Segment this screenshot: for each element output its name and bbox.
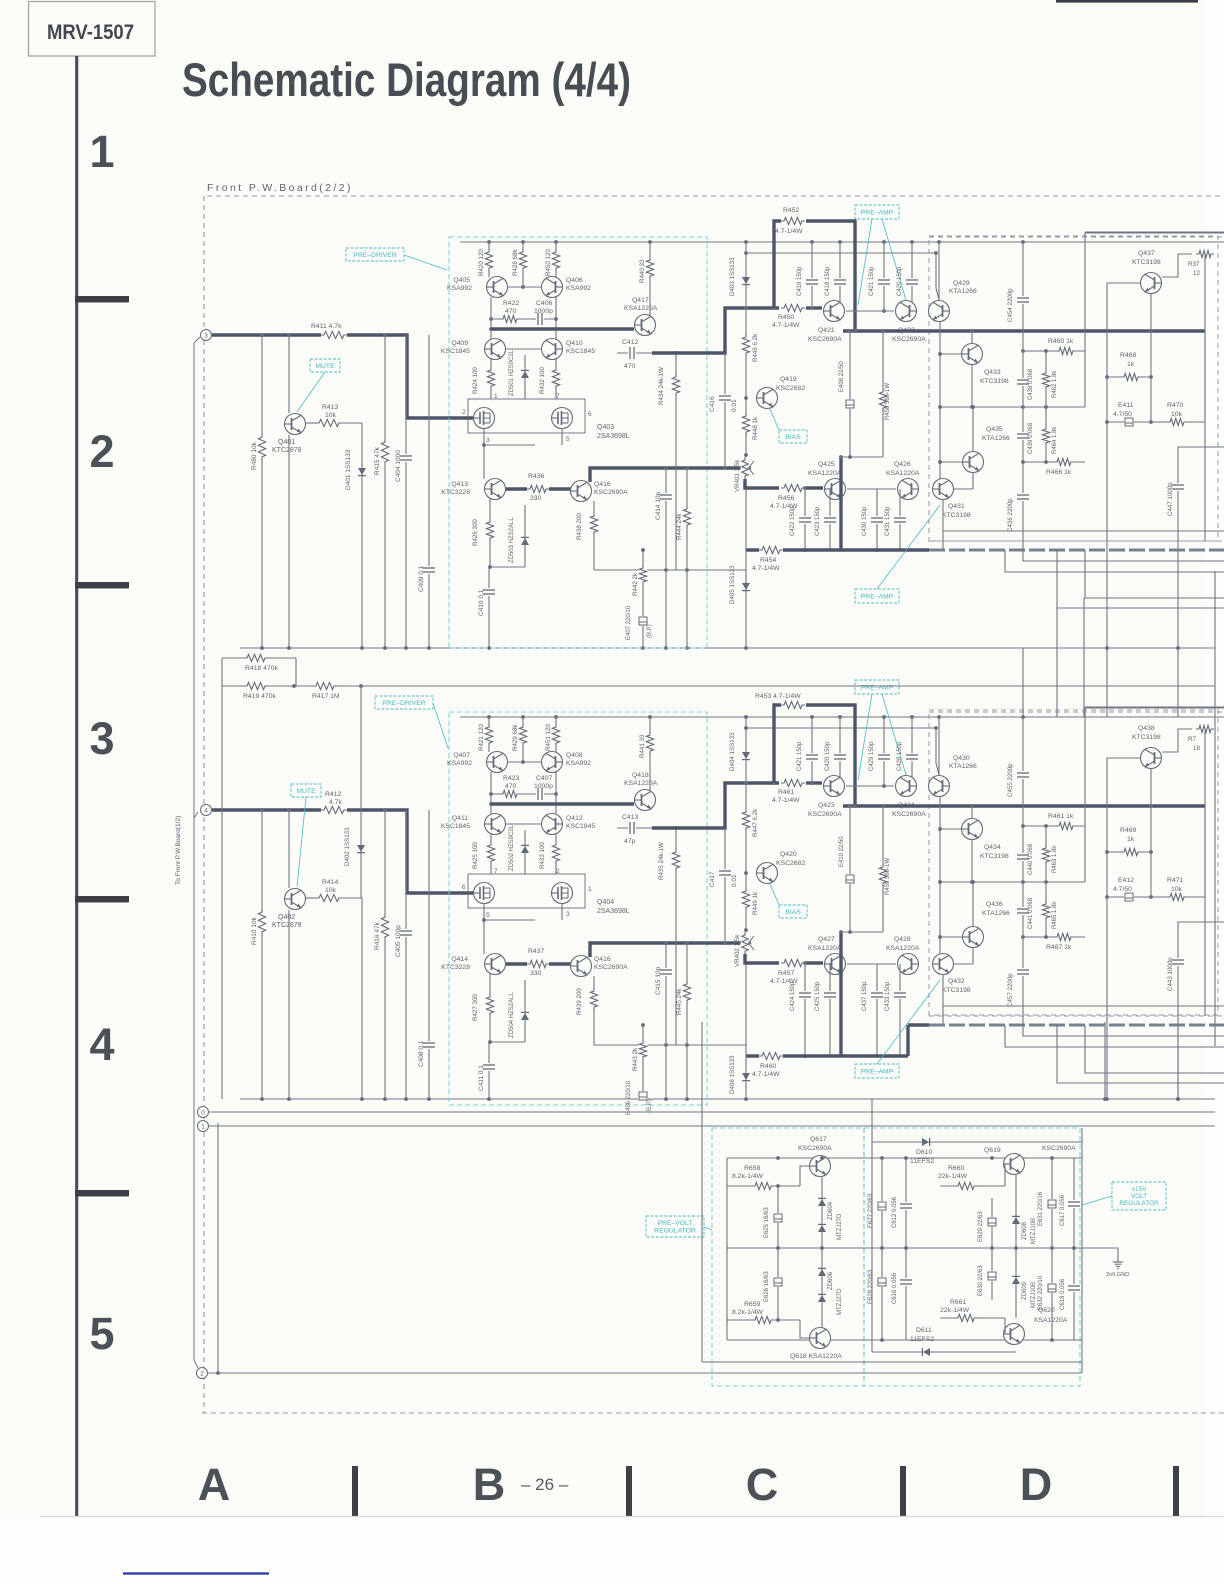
svg-text:MTZJ27D: MTZJ27D [837, 1288, 843, 1315]
svg-text:1: 1 [89, 126, 114, 177]
svg-text:C430 150p: C430 150p [862, 506, 868, 536]
svg-text:6: 6 [462, 884, 466, 891]
transistor Q411 KSC1845 [485, 814, 506, 835]
svg-text:ZD608: ZD608 [1022, 1221, 1028, 1240]
junction [427, 646, 431, 650]
svg-text:KTA1266: KTA1266 [982, 910, 1010, 917]
junction [664, 646, 668, 650]
transistor Q423 KSC2690A [824, 776, 845, 797]
svg-text:R457: R457 [778, 970, 794, 977]
resistor R443 2k [642, 1025, 644, 1099]
wire bottom q405-q406 [507, 761, 542, 763]
svg-text:A: A [198, 1459, 231, 1510]
svg-text:R7: R7 [1188, 736, 1196, 743]
electrolytic E631 220/16 [1051, 1158, 1053, 1248]
transistor Q436 KTA1266 [963, 927, 984, 948]
svg-text:2SA3698L: 2SA3698L [597, 908, 630, 915]
svg-text:To Front P.W.Board(1/2): To Front P.W.Board(1/2) [175, 816, 182, 885]
svg-text:C421 150p: C421 150p [869, 266, 875, 296]
resistor R450 4.7-1/4W [781, 304, 805, 313]
diode D611 11EFS2 [923, 1348, 930, 1356]
wire right col 1205 bottom [1204, 728, 1206, 1016]
wire bottom bottom rail [240, 1098, 1215, 1100]
left ruler tick 4-5 [75, 1190, 129, 1197]
svg-text:Q410: Q410 [566, 340, 583, 347]
svg-text:R461: R461 [778, 789, 794, 796]
svg-text:3: 3 [566, 911, 570, 918]
svg-text:KTC3198: KTC3198 [1132, 734, 1161, 741]
transistor Q408 KSA992 [542, 752, 563, 773]
capacitor C447 1000p [1178, 447, 1224, 648]
svg-text:C420 150p: C420 150p [825, 741, 831, 771]
resistor R438 200 [593, 501, 595, 570]
junction [521, 240, 525, 244]
diode D406 1SS133 [745, 1056, 747, 1099]
wire right col 1205 [1204, 253, 1206, 541]
wire bottom top rail [460, 716, 1224, 718]
capacitor C433 150p [899, 964, 901, 1056]
resistor R418 470k [222, 657, 296, 659]
junction [554, 240, 558, 244]
transistor Q425 KSA1220A [825, 479, 846, 500]
transistor Q429 KTA1266 [929, 301, 950, 322]
label MUTE top [310, 359, 340, 372]
resistor R416 47k [384, 810, 386, 1099]
solid box preamp right top [1085, 233, 1224, 407]
svg-text:Schematic Diagram (4/4): Schematic Diagram (4/4) [182, 53, 631, 106]
wire bottom row457 [841, 931, 883, 933]
wire reg mid rail [727, 1247, 1082, 1249]
svg-text:Q430: Q430 [953, 755, 970, 762]
svg-text:R451 120: R451 120 [545, 724, 552, 751]
svg-text:Q617: Q617 [810, 1136, 827, 1143]
wire input bus top [212, 335, 473, 418]
svg-text:C417: C417 [709, 871, 716, 887]
svg-text:C416: C416 [709, 396, 716, 412]
svg-text:KSC1845: KSC1845 [566, 348, 595, 355]
capacitor C415 10p [665, 943, 667, 1099]
resistor R661 22k-1/4W [940, 1317, 1005, 1319]
svg-text:E410 22/50: E410 22/50 [839, 836, 845, 867]
junction [641, 1097, 645, 1101]
resistor R434 24k-1W [675, 353, 677, 570]
junction [260, 1097, 264, 1101]
wire bus drop 1105 [1104, 1022, 1106, 1099]
svg-text:C406: C406 [536, 300, 552, 307]
svg-text:E412: E412 [1118, 877, 1134, 884]
board dashed border bottom [202, 1412, 1224, 1414]
wire top rail2 to q429 [936, 253, 939, 300]
svg-text:R658: R658 [744, 1165, 760, 1172]
resistor R428 68k [522, 242, 524, 287]
resistor R447 6.2k [745, 783, 747, 1056]
svg-text:2n6.GND: 2n6.GND [1106, 1272, 1129, 1278]
junction [810, 240, 814, 244]
junction [260, 333, 264, 337]
resistor R411 4.7k [321, 331, 347, 340]
wire top thick q413-q416 [506, 487, 571, 490]
resistor R415 47k [384, 335, 386, 648]
svg-text:C441 0.068: C441 0.068 [1028, 897, 1034, 929]
svg-text:Q417: Q417 [632, 297, 649, 304]
resistor R658 8.2k-1/4W [727, 1185, 800, 1187]
column tick C-D [900, 1466, 906, 1516]
capacitor C407 [536, 788, 544, 801]
transistor Q431 KTC3198 [933, 479, 954, 500]
svg-text:PRE–VOLT: PRE–VOLT [657, 1220, 692, 1227]
wire r417 drop [360, 686, 362, 898]
svg-text:E631 220/16: E631 220/16 [1038, 1191, 1044, 1226]
diode D404 1SS133 [745, 717, 747, 783]
capacitor C436 2200p [1022, 462, 1024, 541]
resistor R450 120 [555, 242, 557, 277]
svg-text:Q414: Q414 [451, 956, 468, 963]
svg-text:C425 150p: C425 150p [815, 981, 821, 1011]
svg-text:C415 10p: C415 10p [655, 966, 662, 995]
svg-text:4.7-1/4W: 4.7-1/4W [772, 322, 800, 329]
wire gap col 1178 [1177, 648, 1179, 717]
svg-text:10k: 10k [1171, 411, 1183, 418]
transistor Q619 KSC2690A [1004, 1154, 1025, 1175]
wire top right lower steps [943, 530, 1224, 532]
svg-text:KSA992: KSA992 [447, 760, 472, 767]
svg-text:VR401 1.5k: VR401 1.5k [734, 459, 741, 492]
resistor R445 24k [686, 943, 688, 1099]
wire top thick q416 up [590, 468, 742, 482]
svg-text:C414 10p: C414 10p [655, 491, 662, 520]
svg-text:Q435: Q435 [986, 426, 1003, 433]
junction [287, 333, 291, 337]
pre-driver cyan box top [449, 237, 707, 648]
svg-text:C612 0.056: C612 0.056 [892, 1196, 898, 1228]
resistor R426 300 [489, 499, 491, 567]
capacitor C428 150p [911, 717, 913, 786]
junction [260, 808, 264, 812]
zener ZD501 HZS9C2L [524, 355, 526, 399]
wire top main output bus [843, 329, 1205, 333]
transistor Q417 KSA1220A [635, 315, 656, 336]
svg-text:C437 150p: C437 150p [862, 981, 868, 1011]
wire top left v1 [261, 335, 263, 648]
svg-text:R414: R414 [322, 879, 338, 886]
svg-text:C440 0.068: C440 0.068 [1028, 843, 1034, 875]
capacitor C404 [405, 335, 407, 648]
resistor R410 10k [258, 909, 267, 935]
wire reg col 872 [871, 1099, 873, 1352]
left ruler tick 1-2 [75, 296, 129, 303]
svg-text:KTA1266: KTA1266 [949, 763, 977, 770]
wire top fet drain [483, 428, 485, 479]
svg-text:MTZJ10B: MTZJ10B [1031, 1218, 1037, 1244]
svg-text:R661: R661 [950, 1299, 966, 1306]
svg-text:R447 6.2k: R447 6.2k [752, 808, 759, 837]
svg-text:Q432: Q432 [948, 978, 965, 985]
svg-text:(B.P): (B.P) [647, 624, 653, 638]
svg-text:18: 18 [1193, 745, 1200, 752]
wire bottom right edge col [1204, 806, 1206, 897]
svg-text:R460: R460 [760, 1063, 776, 1070]
junction [744, 646, 748, 650]
svg-text:ZD503 HZS2ALL: ZD503 HZS2ALL [509, 517, 515, 563]
resistor R463 1.8k [1045, 826, 1047, 882]
wire top thick feedback loop [774, 221, 781, 308]
junction [910, 240, 914, 244]
harness corner bottom [194, 1360, 198, 1368]
diode D405 1SS133 [745, 550, 747, 648]
resistor R470 10k [1151, 421, 1205, 423]
terminal 4 [201, 805, 212, 816]
wire top q437 col left [1107, 283, 1140, 422]
wire bottom q421-q422 [846, 785, 894, 787]
wire top row457 [841, 456, 883, 458]
svg-text:C410 0.1: C410 0.1 [478, 589, 485, 616]
harness corner top [194, 337, 200, 343]
svg-text:KTC3198: KTC3198 [980, 378, 1009, 385]
svg-text:R418 470k: R418 470k [245, 665, 278, 672]
harness corner t4 [194, 812, 198, 818]
resistor R461 4.7-1/4W [781, 779, 805, 788]
wire bottom q437 col left [1107, 758, 1140, 897]
transistor Q418 KSA1220A [635, 790, 656, 811]
svg-text:E406 220/10: E406 220/10 [626, 1080, 632, 1115]
resistor R448 1k [742, 413, 751, 435]
wire reg outer col [701, 1022, 703, 1362]
transistor Q414 KTC3228 [485, 954, 506, 975]
svg-text:Q402: Q402 [278, 914, 295, 921]
resistor R423 470 [500, 790, 520, 799]
wire q617 base drop [800, 1166, 809, 1186]
transistor Q428 KSA1220A [898, 954, 919, 975]
solid box preamp right bottom [1085, 708, 1224, 882]
capacitor C406 [536, 313, 544, 326]
wire r418 drop [295, 658, 297, 686]
wire bottom q437 emitter to rail [1106, 897, 1108, 1099]
junction reg rails [776, 1156, 780, 1160]
svg-text:R422: R422 [503, 300, 519, 307]
svg-text:330: 330 [530, 970, 542, 977]
svg-text:R456: R456 [778, 495, 794, 502]
svg-text:R434 24k-1W: R434 24k-1W [658, 367, 665, 405]
svg-text:2: 2 [200, 1371, 204, 1378]
electrolytic E628 220/63 [881, 1248, 883, 1340]
junction [937, 240, 941, 244]
svg-text:E630 22/63: E630 22/63 [978, 1265, 984, 1296]
svg-text:Q437: Q437 [1138, 250, 1155, 257]
junction [937, 715, 941, 719]
column tick A-B [352, 1466, 358, 1516]
terminal 2 [197, 1368, 208, 1379]
transistor Q426 KSA1220A [898, 479, 919, 500]
svg-text:1000p: 1000p [534, 783, 553, 790]
svg-text:C420 150p: C420 150p [897, 266, 903, 296]
wire bottom thick feedback loop [774, 705, 781, 783]
svg-text:2SA3698L: 2SA3698L [597, 433, 630, 440]
svg-text:KSA1220A: KSA1220A [886, 470, 920, 477]
svg-text:R458 560-1W: R458 560-1W [885, 383, 891, 420]
junction [487, 240, 491, 244]
svg-text:Q406: Q406 [566, 277, 583, 284]
wire bottom thick q416 up [590, 943, 742, 957]
svg-text:C421 150p: C421 150p [797, 741, 803, 771]
svg-text:E627 220/63: E627 220/63 [868, 1193, 874, 1228]
resistor R429 68k [522, 717, 524, 762]
capacitor C405 [405, 810, 407, 1099]
wire bottom q409-q410 [505, 823, 542, 825]
svg-text:C: C [746, 1459, 779, 1510]
svg-text:470: 470 [505, 308, 517, 315]
wire bottom thick lower bus [746, 1054, 908, 1057]
wire bottom rail2 to q429 [936, 728, 939, 775]
svg-text:Q401: Q401 [278, 439, 295, 446]
electrolytic E630 22/63 [991, 1248, 993, 1300]
footer blue rule [123, 1572, 269, 1574]
svg-text:E632 220/10: E632 220/10 [1038, 1275, 1044, 1310]
wire terminal0 line [209, 1111, 1215, 1113]
capacitor C424 150p [804, 963, 806, 1056]
svg-text:1: 1 [588, 886, 592, 893]
resistor R442 2k [642, 550, 644, 648]
svg-text:R424 100: R424 100 [472, 367, 479, 394]
svg-text:R460 1k: R460 1k [1048, 338, 1074, 345]
wire bottom fet drain [483, 903, 485, 954]
svg-text:ZD604: ZD604 [828, 1201, 834, 1220]
resistor R457 4.7-1/4W [781, 959, 805, 968]
wire top thick q425 col [839, 457, 842, 550]
svg-text:Q408: Q408 [566, 752, 583, 759]
electrolytic E408 22/50 [849, 331, 851, 457]
svg-text:C616 0.056: C616 0.056 [892, 1272, 898, 1304]
transistor Q420 KSC2682 [757, 863, 778, 884]
junction [648, 715, 652, 719]
svg-text:22k-1/4W: 22k-1/4W [938, 1173, 968, 1180]
board dashed border left [203, 196, 205, 1413]
svg-text:R416 47k: R416 47k [374, 921, 381, 950]
page header box MRV-1507 [29, 2, 156, 57]
capacitor C418 150p [839, 242, 841, 308]
capacitor C421 150p [811, 717, 813, 783]
svg-text:PRE–AMP: PRE–AMP [861, 209, 894, 216]
capacitor C438 0.068 [1022, 331, 1024, 407]
svg-text:ZD609: ZD609 [1022, 1281, 1028, 1300]
wire bottom left v3 [361, 898, 363, 1099]
wire reg bottom line d611 [872, 1351, 1016, 1353]
junction [744, 1097, 748, 1101]
wire reg top rail [727, 1157, 1082, 1159]
svg-text:C618 0.056: C618 0.056 [1060, 1278, 1066, 1310]
svg-text:1000p: 1000p [534, 308, 553, 315]
svg-text:KSC2690A: KSC2690A [892, 336, 926, 343]
svg-text:5: 5 [89, 1308, 114, 1359]
pre-driver cyan box bottom [449, 712, 707, 1105]
label PRE-DRIVER top [346, 248, 404, 261]
electrolytic E411 4.7/50 [1107, 421, 1151, 423]
transistor Q416 KSC2690A [571, 481, 592, 502]
junction [427, 1097, 431, 1101]
svg-text:3: 3 [89, 713, 114, 764]
junction [641, 646, 645, 650]
left ruler line [75, 56, 78, 1516]
preamp dashed box bottom [929, 710, 1218, 1015]
svg-text:MUTE: MUTE [315, 363, 335, 370]
wire terminal2 line [208, 1372, 1082, 1374]
resistor R466 1k [1023, 461, 1085, 463]
junction [487, 1097, 491, 1101]
svg-text:C408 0.1: C408 0.1 [418, 1040, 425, 1067]
svg-text:3: 3 [486, 437, 490, 444]
svg-text:C413: C413 [622, 814, 638, 821]
resistor R444 24k [686, 468, 688, 648]
svg-text:R426 300: R426 300 [472, 519, 479, 546]
zener ZD607 MTZJ27D [818, 1295, 826, 1302]
transistor Q427 KSA1220A [825, 954, 846, 975]
svg-text:C431 150p: C431 150p [885, 506, 891, 536]
wire right col 1215 [1214, 571, 1216, 1046]
svg-text:3: 3 [204, 333, 208, 340]
capacitor C416 0.01 [724, 353, 726, 468]
electrolytic E412 4.7/50 [1107, 896, 1151, 898]
svg-text:R425 100: R425 100 [472, 842, 479, 869]
transistor Q419 KSC2682 [757, 388, 778, 409]
svg-text:R433 100: R433 100 [539, 842, 546, 869]
zener ZD606 MTZJ27D [821, 1248, 823, 1330]
svg-text:D403 1SS133: D403 1SS133 [729, 257, 736, 296]
svg-text:11EFS2: 11EFS2 [910, 1158, 934, 1165]
label PRE-AMP lower top [855, 589, 899, 603]
svg-text:R413: R413 [322, 404, 338, 411]
transistor Q416 KSC2690A [571, 956, 592, 977]
transistor Q617 KSC2690A [810, 1156, 831, 1177]
capacitor C412 [617, 352, 652, 354]
capacitor C617 0.056 [1073, 1158, 1075, 1248]
wire top q437 emitter [1150, 294, 1152, 422]
terminal 0 [198, 1107, 209, 1118]
wire bottom dashed top preamp [929, 711, 1224, 713]
svg-text:C422 150p: C422 150p [790, 506, 796, 536]
svg-text:R445 24k: R445 24k [676, 988, 683, 1015]
svg-text:2: 2 [89, 426, 114, 477]
board dashed border top [207, 195, 1224, 197]
capacitor C422 150p [804, 488, 806, 550]
capacitor C423 150p [829, 488, 831, 550]
svg-text:4.7/50: 4.7/50 [1113, 886, 1132, 893]
svg-text:E407 220/10: E407 220/10 [626, 605, 632, 640]
svg-text:C411 0.1: C411 0.1 [478, 1065, 485, 1091]
svg-text:22k-1/4W: 22k-1/4W [940, 1307, 970, 1314]
svg-text:1: 1 [201, 1124, 205, 1131]
svg-text:R428 68k: R428 68k [512, 249, 519, 276]
junction [910, 715, 914, 719]
wire reg left col [726, 1158, 728, 1340]
svg-text:C447 1000p: C447 1000p [1167, 482, 1174, 516]
wire bottom r422 row [490, 772, 492, 814]
svg-text:BIAS: BIAS [785, 909, 801, 916]
resistor R660 22k-1/4W [940, 1185, 1005, 1187]
svg-text:R462 1.8k: R462 1.8k [1052, 370, 1058, 398]
resistor R421 120 [488, 717, 490, 752]
wire gap col 1107 [1106, 648, 1108, 717]
svg-text:4.7-1/4W: 4.7-1/4W [752, 565, 780, 572]
resistor R452 4.7-1/4W [781, 217, 805, 226]
resistor R480 10k [258, 434, 267, 460]
svg-text:1: 1 [494, 393, 498, 400]
zener ZD504 HZS2ALL [524, 980, 526, 1042]
svg-text:(B.P): (B.P) [647, 1099, 653, 1113]
transistor Q432 KTC3198 [933, 954, 954, 975]
column tick B-C [626, 1466, 632, 1516]
svg-text:KTC2878: KTC2878 [272, 447, 302, 454]
junction [810, 715, 814, 719]
resistor R435 24k-1W [675, 828, 677, 1045]
